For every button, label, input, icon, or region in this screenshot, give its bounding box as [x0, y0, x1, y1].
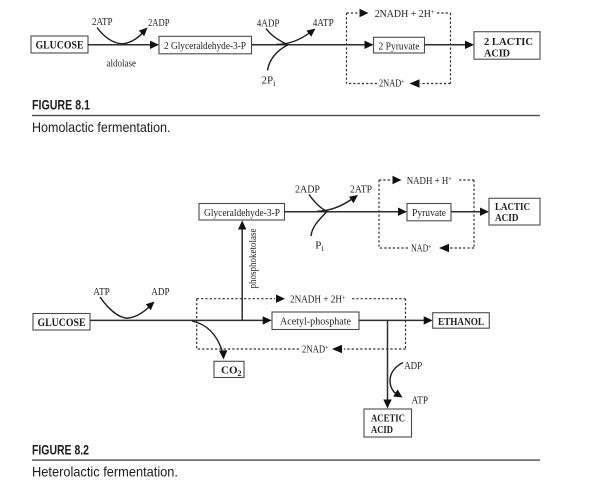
curved arrow 2ATP to 2ADP [97, 28, 144, 44]
wire phosphoketolase vertical up [241, 227, 243, 320]
svg-text:GLUCOSE: GLUCOSE [38, 317, 86, 329]
arrowhead into 2 LACTIC ACID [465, 41, 474, 49]
dashed loop top segment right (fig 8.2 upper) [459, 179, 474, 181]
curved arrow up to 2ATP [317, 199, 352, 211]
svg-text:LACTIC: LACTIC [495, 202, 530, 213]
wire 2 Glyceraldehyde-3-P to 2 Pyruvate [252, 44, 367, 46]
svg-text:Glyceraldehyde-3-P: Glyceraldehyde-3-P [204, 208, 280, 219]
caption rule 8.2 [32, 459, 540, 460]
arrowhead into LACTIC ACID [480, 208, 489, 216]
svg-text:ATP: ATP [412, 395, 429, 407]
arrowhead into ETHANOL [424, 316, 433, 324]
svg-text:2ATP: 2ATP [92, 16, 113, 28]
svg-text:2NADH + 2H+: 2NADH + 2H+ [375, 7, 435, 20]
arrowhead into 2 Pyruvate [365, 41, 374, 49]
box Glyceraldehyde-3-P [199, 204, 285, 221]
svg-text:ADP: ADP [151, 286, 169, 298]
svg-text:2 Glyceraldehyde-3-P: 2 Glyceraldehyde-3-P [164, 41, 246, 52]
svg-text:Acetyl-phosphate: Acetyl-phosphate [280, 317, 351, 328]
arrowhead into Acetyl-phosphate [263, 316, 272, 324]
curved arrow ATP to ADP [100, 297, 150, 318]
dashed loop bottom segment left [347, 83, 378, 85]
svg-text:Pyruvate: Pyruvate [412, 208, 446, 219]
dashed loop bottom segment left (acetyl) [197, 348, 299, 350]
box Pyruvate [407, 204, 451, 221]
dashed loop bottom segment right [420, 83, 451, 85]
wire Acetyl-phosphate to ETHANOL [359, 319, 426, 321]
svg-text:ADP: ADP [404, 360, 422, 372]
caption rule 8.1 [32, 115, 540, 116]
arrowhead toward NAD+ [439, 244, 449, 252]
wire Glyceraldehyde-3-P to Pyruvate [285, 211, 401, 213]
dashed loop around Acetyl-phosphate: left side [196, 299, 198, 349]
dashed loop top segment right [437, 12, 451, 14]
svg-text:Homolactic fermentation.: Homolactic fermentation. [32, 119, 171, 135]
svg-text:2ADP: 2ADP [148, 17, 170, 29]
svg-text:ACID: ACID [495, 213, 519, 224]
box GLUCOSE (fig 8.2) [33, 314, 90, 331]
curved line 4ADP down to 2Pi [266, 29, 288, 71]
box ETHANOL [433, 313, 490, 329]
dashed loop around Pyruvate: left side [378, 180, 380, 248]
curved line 2ADP down to Pi [309, 195, 327, 237]
dashed loop around 2 Pyruvate: left side [346, 13, 348, 84]
arrowhead down into ACETIC ACID [383, 400, 391, 409]
svg-text:aldolase: aldolase [107, 59, 137, 70]
curved arrow to CO2 [192, 321, 223, 352]
svg-text:ACID: ACID [484, 49, 510, 60]
svg-text:2 LACTIC: 2 LACTIC [484, 37, 533, 48]
box 2 Pyruvate [374, 37, 425, 53]
box 2 LACTIC ACID [474, 32, 540, 60]
wire GLUCOSE to Acetyl-phosphate [90, 319, 265, 321]
svg-text:GLUCOSE: GLUCOSE [36, 40, 84, 52]
dashed loop top segment left (fig 8.2 upper) [379, 179, 392, 181]
dashed loop bottom segment left (fig 8.2 upper) [379, 247, 408, 249]
svg-text:2NADH + 2H+: 2NADH + 2H+ [290, 293, 346, 306]
svg-text:FIGURE 8.2: FIGURE 8.2 [32, 442, 89, 458]
arrowhead into Pyruvate [398, 208, 407, 216]
svg-text:4ADP: 4ADP [257, 18, 280, 30]
svg-text:2ATP: 2ATP [350, 183, 372, 195]
curved arrow ADP to ATP [390, 363, 403, 395]
dashed loop top segment left (acetyl) [197, 298, 275, 300]
dashed loop right side (acetyl) [405, 299, 407, 349]
svg-text:NADH + H+: NADH + H+ [407, 174, 452, 187]
dashed loop bottom segment right (acetyl) [344, 348, 406, 350]
svg-text:FIGURE 8.1: FIGURE 8.1 [32, 97, 90, 113]
arrowhead toward 2NAD+ (acetyl) [332, 345, 342, 353]
wire Acetyl-phosphate down to ACETIC ACID [387, 320, 389, 402]
arrowhead toward NADH + H+ [393, 176, 402, 184]
box ACETIC ACID [364, 409, 412, 437]
arrowhead into 2 Glyceraldehyde-3-P [150, 41, 159, 49]
arrowhead toward 2NADH + 2H+ (acetyl) [276, 295, 285, 303]
dashed loop bottom segment right (fig 8.2 upper) [450, 247, 474, 249]
wire 2 Pyruvate to 2 LACTIC ACID [425, 44, 468, 46]
dashed loop right side (fig 8.2 upper) [473, 180, 475, 248]
wire Pyruvate to LACTIC ACID [451, 211, 482, 213]
svg-text:4ATP: 4ATP [313, 17, 334, 29]
curved arrow up to 4ATP [276, 33, 310, 45]
box LACTIC ACID [489, 198, 540, 225]
svg-text:ACETIC: ACETIC [371, 414, 405, 425]
box CO2 [214, 361, 244, 378]
dashed loop top segment right (acetyl) [352, 298, 406, 300]
svg-text:ATP: ATP [93, 286, 110, 298]
svg-text:2 Pyruvate: 2 Pyruvate [379, 41, 420, 52]
dashed loop right side [450, 13, 452, 84]
svg-text:2NAD+: 2NAD+ [302, 343, 329, 356]
box GLUCOSE (fig 8.1) [31, 36, 88, 53]
svg-text:Heterolactic fermentation.: Heterolactic fermentation. [32, 463, 178, 479]
svg-text:phosphoketolase: phosphoketolase [248, 228, 259, 288]
wire GLUCOSE to 2 Glyceraldehyde-3-P [88, 44, 152, 46]
arrowhead up into Glyceraldehyde-3-P [238, 221, 246, 230]
dashed loop top segment left [347, 12, 360, 14]
svg-text:2NAD+: 2NAD+ [379, 77, 404, 90]
arrowhead toward 2NAD+ [410, 79, 420, 87]
arrowhead toward 2NADH + 2H+ [360, 9, 369, 17]
svg-text:2ADP: 2ADP [295, 183, 320, 195]
svg-text:ETHANOL: ETHANOL [438, 316, 484, 328]
box 2 Glyceraldehyde-3-P [159, 36, 252, 54]
box Acetyl-phosphate [272, 312, 359, 330]
svg-text:ACID: ACID [371, 425, 393, 436]
